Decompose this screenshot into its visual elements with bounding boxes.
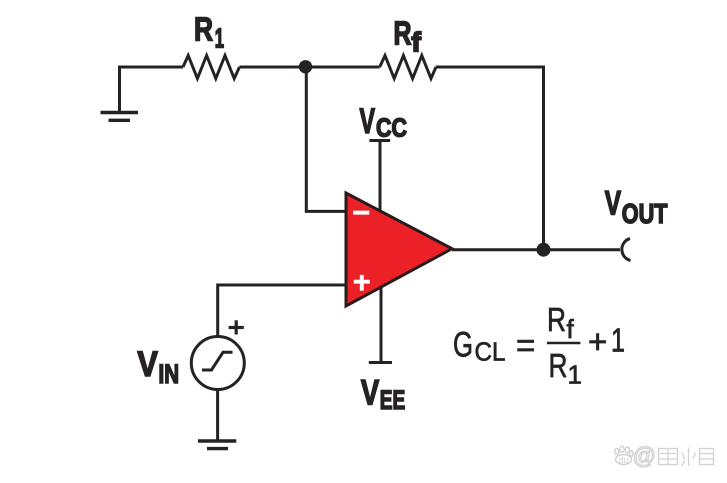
label VCC bbox=[360, 102, 408, 143]
op-amp U1 bbox=[346, 193, 452, 306]
svg-text:V: V bbox=[605, 185, 622, 223]
source VIN circle bbox=[191, 337, 244, 390]
ground left bbox=[101, 67, 139, 120]
source ramp symbol bbox=[202, 352, 233, 370]
svg-text:du: du bbox=[619, 455, 629, 465]
watermark baidu paw icon bbox=[615, 446, 633, 465]
label VIN bbox=[137, 345, 179, 389]
svg-text:IN: IN bbox=[159, 359, 180, 389]
svg-text:V: V bbox=[360, 102, 376, 141]
node output junction dot bbox=[537, 243, 551, 257]
watermark text bbox=[633, 443, 655, 469]
label R1 bbox=[194, 11, 224, 54]
svg-text:R: R bbox=[194, 11, 213, 48]
svg-text:R: R bbox=[394, 14, 412, 51]
resistor R1 bbox=[183, 56, 240, 79]
svg-text:1: 1 bbox=[215, 22, 224, 53]
svg-text:CC: CC bbox=[376, 113, 407, 143]
svg-text:OUT: OUT bbox=[622, 198, 668, 229]
source plus sign bbox=[229, 320, 244, 334]
formula GCL = Rf/R1 + 1 bbox=[453, 301, 625, 389]
svg-text:@: @ bbox=[633, 443, 655, 469]
wire bbox=[240, 66, 380, 69]
svg-text:R: R bbox=[547, 301, 566, 338]
ground bottom bbox=[198, 441, 236, 449]
node A junction dot bbox=[299, 60, 312, 73]
resistor Rf bbox=[380, 56, 436, 79]
wire bbox=[118, 66, 183, 69]
wire noninverting input bbox=[218, 285, 346, 337]
wire VCC bbox=[369, 141, 390, 213]
svg-text:EE: EE bbox=[380, 385, 406, 415]
svg-text:CL: CL bbox=[475, 337, 506, 367]
wire VEE bbox=[369, 287, 392, 363]
label Rf bbox=[394, 14, 422, 57]
svg-text:R: R bbox=[549, 347, 568, 384]
svg-text:V: V bbox=[137, 345, 158, 384]
svg-text:V: V bbox=[361, 374, 380, 413]
svg-text:f: f bbox=[411, 26, 421, 57]
output terminal bbox=[622, 239, 631, 261]
wire source bottom bbox=[216, 390, 219, 442]
svg-text:1: 1 bbox=[611, 321, 625, 358]
label VEE bbox=[361, 374, 405, 415]
label VOUT bbox=[605, 185, 668, 230]
svg-text:=: = bbox=[516, 327, 535, 364]
svg-text:f: f bbox=[567, 314, 575, 344]
svg-text:1: 1 bbox=[568, 360, 582, 390]
wire output bbox=[452, 248, 620, 251]
wire inverting input bbox=[306, 67, 346, 211]
wire bbox=[436, 67, 544, 250]
svg-text:G: G bbox=[453, 326, 473, 365]
svg-text:+: + bbox=[588, 323, 607, 360]
